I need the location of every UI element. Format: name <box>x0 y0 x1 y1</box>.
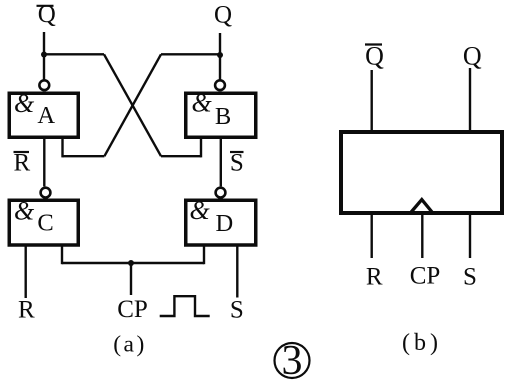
wire: CP input lead <box>130 263 132 295</box>
svg-text:D: D <box>215 210 233 237</box>
wire: gate D to CP junction <box>203 247 205 265</box>
wire: horizontal from Q-bar node <box>44 53 104 55</box>
wire: Q-bar pin (b) <box>371 70 373 132</box>
wire: diagonal Q to gate A side <box>104 54 161 156</box>
wire: Q pin (b) <box>469 68 471 132</box>
svg-text:R: R <box>18 297 35 324</box>
wire: stub up into gate B <box>200 136 202 157</box>
wire: bottom horizontal to gate A input <box>63 155 105 157</box>
wire: R-bar net (gate C output to gate A input) <box>43 139 45 186</box>
wire: R pin (b) <box>371 215 373 258</box>
label R-bar <box>13 150 30 177</box>
svg-text:(a): (a) <box>113 332 147 358</box>
wire: S-bar net (gate D output to gate B input) <box>220 139 222 186</box>
svg-text:Q: Q <box>463 42 482 71</box>
wire: gate C to CP junction <box>61 247 63 265</box>
svg-text:&: & <box>192 89 213 118</box>
dynamic clock edge indicator (triangle) <box>411 200 432 212</box>
svg-text:Q: Q <box>214 2 232 29</box>
svg-text:S: S <box>230 150 244 177</box>
wire: stub up into gate A <box>61 136 63 157</box>
svg-text:&: & <box>14 89 35 118</box>
wire: CP horizontal bus <box>62 262 204 264</box>
wire: bottom horizontal to gate B input <box>161 155 201 157</box>
svg-text:A: A <box>37 102 55 129</box>
NAND gate B body <box>186 93 256 137</box>
svg-text:C: C <box>37 210 53 237</box>
svg-text:3: 3 <box>282 338 303 383</box>
wire: S pin (b) <box>469 215 471 258</box>
junction dot on Q <box>217 52 223 58</box>
svg-text:R: R <box>13 150 30 177</box>
svg-text:Q: Q <box>365 42 384 71</box>
junction dot CP <box>128 260 134 266</box>
wire: horizontal from Q node <box>161 53 220 55</box>
wire: S input lead <box>236 247 238 298</box>
gate A output bubble <box>39 80 49 90</box>
wire: R input lead <box>25 247 27 299</box>
wire: diagonal Q-bar to gate B side <box>104 54 161 156</box>
wire: Q lead <box>219 33 221 80</box>
wire: Q-bar lead <box>43 32 45 80</box>
svg-text:B: B <box>215 103 231 130</box>
flip-flop block symbol <box>341 132 502 213</box>
svg-text:CP: CP <box>117 296 148 323</box>
label S-bar <box>230 150 244 177</box>
circled figure number 3 <box>275 338 310 383</box>
wire: CP pin (b) <box>421 215 423 258</box>
gate B output bubble <box>215 80 225 90</box>
svg-text:S: S <box>230 297 244 324</box>
gate D output bubble <box>216 188 226 198</box>
label Q-bar (part b) <box>365 42 384 71</box>
junction dot on Q-bar <box>41 52 47 58</box>
clock pulse symbol <box>160 296 210 316</box>
NAND gate A body <box>9 93 78 137</box>
node Q-bar label (part a) <box>37 1 56 28</box>
svg-text:R: R <box>366 264 383 291</box>
svg-text:CP: CP <box>410 263 441 290</box>
svg-text:S: S <box>463 264 477 291</box>
NAND gate C body <box>9 200 78 245</box>
svg-text:&: & <box>14 197 35 226</box>
svg-text:&: & <box>190 196 211 225</box>
NAND gate D body <box>186 200 256 245</box>
gate C output bubble <box>41 188 51 198</box>
svg-text:(b): (b) <box>402 330 442 356</box>
